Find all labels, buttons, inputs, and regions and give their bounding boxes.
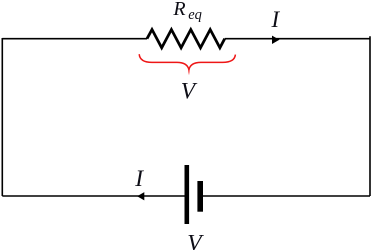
wire top-left segment (2, 38, 147, 40)
current arrow I (top, pointing right) (272, 36, 279, 44)
svg-text:V: V (187, 230, 204, 250)
wire bottom-right segment (203, 195, 370, 197)
battery short plate (197, 181, 203, 212)
svg-text:V: V (181, 79, 198, 105)
wire bottom-left segment (2, 195, 184, 197)
svg-text:I: I (271, 7, 281, 32)
current arrow I (bottom, pointing left) (137, 192, 144, 200)
svg-text:R: R (172, 0, 185, 20)
wire left side (1, 38, 3, 196)
battery long plate (185, 165, 190, 224)
wire top-right segment (225, 38, 370, 40)
brace (red underbrace) (139, 54, 235, 70)
wire right side (369, 36, 371, 196)
svg-text:I: I (134, 166, 144, 192)
svg-text:eq: eq (188, 7, 202, 23)
resistor R_eq zigzag (147, 30, 225, 48)
